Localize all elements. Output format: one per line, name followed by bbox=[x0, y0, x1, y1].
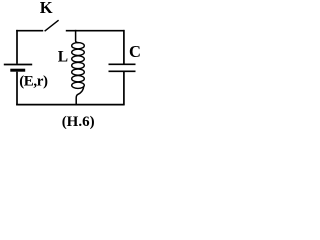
inductor L coil turn 5 bbox=[72, 69, 85, 75]
wire: left vertical (battery top lead) bbox=[16, 30, 18, 64]
wire: bottom rail bbox=[16, 104, 124, 106]
svg-text:L: L bbox=[58, 48, 68, 65]
inductor L coil turn 3 bbox=[72, 56, 85, 62]
svg-text:C: C bbox=[129, 42, 141, 61]
inductor L coil turn 7 bbox=[72, 82, 85, 88]
switch K blade bbox=[45, 20, 59, 31]
battery (E,r) long plate bbox=[4, 64, 32, 66]
wire: right vertical (capacitor bottom lead) bbox=[123, 72, 125, 106]
inductor L bottom lead bbox=[76, 86, 83, 105]
inductor L coil turn 1 bbox=[72, 43, 85, 49]
battery (E,r) short thick plate bbox=[10, 69, 25, 72]
svg-text:(H.6): (H.6) bbox=[62, 114, 95, 130]
capacitor C top plate bbox=[109, 63, 136, 65]
inductor L coil turn 2 bbox=[72, 49, 85, 55]
svg-text:(E,r): (E,r) bbox=[19, 74, 48, 90]
inductor L coil turn 4 bbox=[72, 62, 85, 68]
wire: top rail right segment bbox=[66, 30, 125, 32]
inductor L top lead bbox=[76, 30, 79, 43]
wire: top rail left segment bbox=[16, 30, 43, 32]
capacitor C bottom plate bbox=[109, 70, 136, 72]
svg-text:K: K bbox=[40, 0, 53, 17]
inductor L coil turn 6 bbox=[72, 76, 85, 82]
wire: left vertical (battery bottom lead) bbox=[16, 72, 18, 106]
wire: right vertical (capacitor top lead) bbox=[123, 30, 125, 64]
